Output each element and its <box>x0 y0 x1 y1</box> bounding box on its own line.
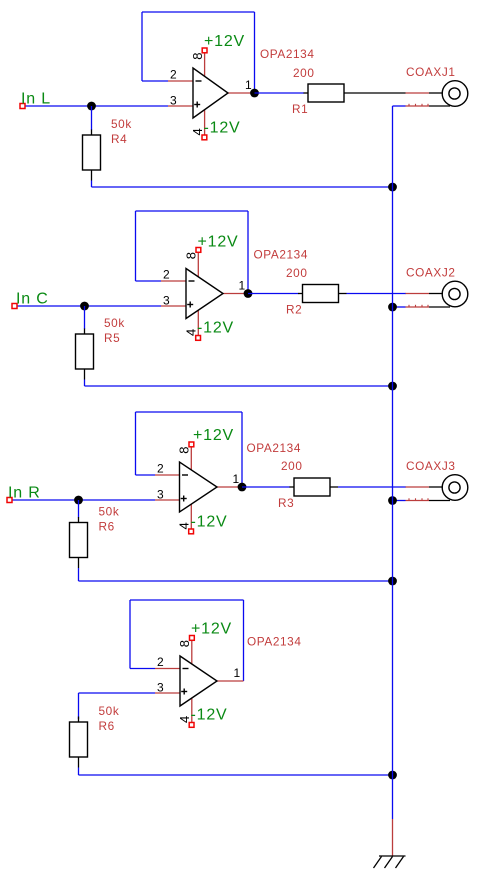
svg-text:+12V: +12V <box>198 234 239 251</box>
svg-text:OPA2134: OPA2134 <box>254 248 308 262</box>
svg-text:4: 4 <box>190 128 205 135</box>
svg-text:8: 8 <box>190 52 205 59</box>
svg-text:OPA2134: OPA2134 <box>247 635 301 649</box>
svg-text:4: 4 <box>177 522 192 529</box>
svg-text:200: 200 <box>286 266 307 280</box>
svg-text:In R: In R <box>8 485 41 502</box>
svg-text:3: 3 <box>157 681 164 695</box>
svg-text:R1: R1 <box>292 102 308 116</box>
svg-text:2: 2 <box>157 655 164 669</box>
svg-text:+12V: +12V <box>193 427 234 444</box>
svg-text:-12V: -12V <box>204 120 241 137</box>
svg-text:4: 4 <box>177 716 192 723</box>
svg-text:8: 8 <box>184 252 199 259</box>
svg-text:COAXJ3: COAXJ3 <box>406 459 456 473</box>
svg-text:OPA2134: OPA2134 <box>247 441 301 455</box>
svg-text:COAXJ1: COAXJ1 <box>406 65 456 79</box>
svg-text:R6: R6 <box>99 520 115 534</box>
svg-text:3: 3 <box>157 488 164 502</box>
svg-text:50k: 50k <box>111 117 132 131</box>
svg-text:1: 1 <box>234 666 241 680</box>
svg-text:+12V: +12V <box>204 33 245 50</box>
svg-text:50k: 50k <box>99 505 120 519</box>
svg-text:8: 8 <box>177 446 192 453</box>
svg-text:In L: In L <box>21 91 51 108</box>
svg-text:2: 2 <box>157 462 164 476</box>
svg-text:1: 1 <box>233 472 240 486</box>
svg-text:COAXJ2: COAXJ2 <box>406 266 456 280</box>
svg-text:In C: In C <box>16 291 49 308</box>
svg-text:3: 3 <box>170 94 177 108</box>
svg-text:R5: R5 <box>104 331 120 345</box>
svg-text:200: 200 <box>293 66 314 80</box>
svg-text:1: 1 <box>239 279 246 293</box>
svg-text:1: 1 <box>245 78 252 92</box>
svg-text:-12V: -12V <box>191 514 228 531</box>
svg-text:OPA2134: OPA2134 <box>260 47 314 61</box>
svg-text:-12V: -12V <box>197 320 234 337</box>
svg-text:50k: 50k <box>99 704 120 718</box>
svg-text:+12V: +12V <box>191 621 232 638</box>
svg-text:R6: R6 <box>99 719 115 733</box>
svg-text:4: 4 <box>184 329 199 336</box>
svg-text:2: 2 <box>163 268 170 282</box>
svg-text:200: 200 <box>281 459 302 473</box>
svg-text:2: 2 <box>170 68 177 82</box>
svg-text:50k: 50k <box>104 316 125 330</box>
svg-text:R2: R2 <box>286 303 302 317</box>
svg-text:3: 3 <box>163 294 170 308</box>
svg-text:-12V: -12V <box>191 707 228 724</box>
svg-text:8: 8 <box>177 640 192 647</box>
svg-text:R4: R4 <box>111 132 127 146</box>
svg-text:R3: R3 <box>278 496 294 510</box>
